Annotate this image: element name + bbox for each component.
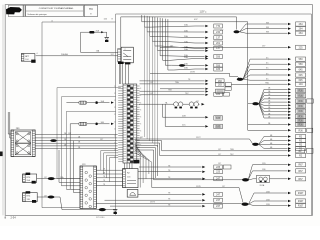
wire y73.3 jog feed to splice S2 xyxy=(150,72,240,79)
svg-text:8: 8 xyxy=(140,152,141,154)
wire loop to fuse F1 and ground xyxy=(81,29,118,52)
splice S2 xyxy=(237,78,244,81)
wire y203.4 switch to splice S6 xyxy=(96,202,241,204)
zone box left outline xyxy=(42,22,116,208)
rotary contact circle pair L xyxy=(174,102,183,109)
bottom mid column rows with arrows and boxes xyxy=(105,165,223,208)
svg-text:9M: 9M xyxy=(266,27,269,29)
relay K1 pin wires down to ECU xyxy=(120,64,129,84)
wire row 83.9 ECU to mid terminal with extra box xyxy=(140,81,232,86)
zone box right outline xyxy=(116,14,312,215)
splice S3 xyxy=(252,102,259,105)
svg-text:21: 21 xyxy=(114,128,116,130)
module B4 (buzzer) xyxy=(127,190,138,198)
svg-text:8: 8 xyxy=(140,159,141,161)
wire row 91.2 ECU to mid terminal double arrow xyxy=(140,87,232,93)
rotary contact circle pair R xyxy=(189,102,198,109)
ECU bottom exit wires xyxy=(125,163,133,169)
svg-text:78C: 78C xyxy=(230,154,234,156)
wire row 47.3 xyxy=(160,45,306,49)
binder hole mark left edge xyxy=(0,152,3,157)
svg-text:21: 21 xyxy=(114,114,116,116)
header sheet number box xyxy=(84,5,97,16)
S4 fan rows to terminal boxes xyxy=(259,134,306,150)
top right fan rows to terminal boxes xyxy=(240,22,306,35)
fuse F2 row y102.6 xyxy=(66,100,113,104)
svg-text:78: 78 xyxy=(103,169,105,171)
header logo black arrow glyph xyxy=(6,7,22,14)
S5 fan wire row 170.9 xyxy=(249,169,306,179)
svg-text:13D: 13D xyxy=(262,163,266,165)
svg-text:2: 2 xyxy=(125,49,126,51)
svg-text:R107: R107 xyxy=(298,206,304,208)
svg-text:8: 8 xyxy=(140,123,141,125)
ECU right diagonal wires to inner verticals xyxy=(135,143,152,188)
footer page number 8 2-34 xyxy=(5,215,17,219)
drop wire to row 126.4 xyxy=(165,104,222,128)
wire C4 to switch with splice xyxy=(37,176,80,180)
connector C5 left bottom xyxy=(23,191,38,203)
wire row 155.5 xyxy=(160,153,306,157)
svg-text:137: 137 xyxy=(218,154,221,156)
wire C1 to relay K1 y55.5 xyxy=(36,53,118,56)
bus bundle vertical continuations below staircase xyxy=(145,27,158,147)
splice S8 bottom xyxy=(99,208,106,211)
wire row 80.9 ECU to mid terminal xyxy=(140,79,225,83)
wire row 94 extra terminal box xyxy=(205,92,229,96)
fuse F1 (black) xyxy=(89,31,94,34)
wires switch to module B3 xyxy=(96,169,122,186)
svg-text:8: 8 xyxy=(140,102,141,104)
bus wire top L2 xyxy=(121,17,237,84)
svg-text:261A: 261A xyxy=(260,184,265,187)
grid reference label 1197 xyxy=(200,11,207,14)
ground MH above relay xyxy=(105,38,109,42)
splice S5 xyxy=(154,178,249,181)
wire row 84.2 feed to right terminal xyxy=(231,82,305,87)
left row wires to ECU y134-147 xyxy=(35,133,117,149)
svg-text:137C: 137C xyxy=(196,137,201,139)
component box B5 (contact pair) on row 178.8 xyxy=(249,175,306,186)
svg-text:8: 8 xyxy=(140,95,141,97)
svg-text:137: 137 xyxy=(218,46,221,48)
header logo cell xyxy=(8,5,25,16)
svg-text:R107: R107 xyxy=(298,193,304,195)
svg-text:137: 137 xyxy=(150,93,153,95)
svg-text:137: 137 xyxy=(100,139,103,141)
extra terminal box row 101 xyxy=(307,99,314,103)
svg-text:R36: R36 xyxy=(298,130,303,132)
drop wire to row 117 xyxy=(163,104,223,120)
svg-text:20A BA: 20A BA xyxy=(61,53,68,56)
S2 fan rows to terminal boxes xyxy=(243,57,306,82)
zone outline corner y96.75 xyxy=(61,97,115,186)
splice S4 xyxy=(252,143,259,146)
wire row 130.3 with extra box xyxy=(248,125,313,133)
svg-text:137: 137 xyxy=(111,54,114,56)
connector C4 left xyxy=(23,173,37,184)
long wire y187.5 to splice S6 xyxy=(152,170,243,203)
S3 fan rows to terminal boxes xyxy=(259,88,306,123)
wire C5 to splice S7 and ground xyxy=(37,196,111,210)
S5 fan wire row 164.7 xyxy=(249,163,306,179)
ECU central connector body xyxy=(123,84,137,163)
relay K1 top center xyxy=(118,47,134,64)
svg-text:2-34: 2-34 xyxy=(11,215,17,219)
wire row 94.8 ECU to mid terminal xyxy=(140,93,205,95)
ignition / steering column switch xyxy=(80,164,96,208)
svg-text:R107: R107 xyxy=(298,201,304,203)
S6 fan rows to terminal boxes xyxy=(249,191,306,208)
svg-text:8: 8 xyxy=(140,109,141,111)
svg-text:78: 78 xyxy=(103,172,105,174)
svg-text:137: 137 xyxy=(44,195,47,197)
svg-text:1197: 1197 xyxy=(200,11,206,14)
ECU left pin stubs xyxy=(114,86,123,161)
extra box next to row 167 xyxy=(223,165,231,169)
splice on row 65.4 xyxy=(179,64,185,67)
ECU bottom splice cluster xyxy=(134,160,140,164)
svg-text:137: 137 xyxy=(44,177,47,179)
ground MB bottom xyxy=(112,210,118,214)
zone outline corner y111.4 xyxy=(66,111,115,189)
long wire y139 from ECU to splice S4 xyxy=(135,137,253,144)
svg-text:137: 137 xyxy=(218,149,221,151)
svg-text:137: 137 xyxy=(68,133,71,135)
svg-text:21: 21 xyxy=(114,107,116,109)
mid column wire rows with arrows and connector boxes xyxy=(145,16,223,72)
ECU right pin drop wires nested corners xyxy=(135,141,162,180)
svg-text:137: 137 xyxy=(196,101,199,103)
wire row 104 through rotary contacts xyxy=(139,101,205,105)
svg-text:9M: 9M xyxy=(266,32,269,34)
svg-text:Schema de principe: Schema de principe xyxy=(27,13,47,16)
svg-text:8: 8 xyxy=(140,88,141,90)
ECU right pin stubs xyxy=(137,86,142,161)
zone outline corner y87.6 xyxy=(57,88,121,179)
svg-text:137: 137 xyxy=(218,169,221,171)
svg-text:21: 21 xyxy=(114,135,116,137)
svg-text:137: 137 xyxy=(170,46,173,48)
svg-text:8: 8 xyxy=(140,145,141,147)
svg-text:21: 21 xyxy=(114,100,116,102)
svg-text:TN: TN xyxy=(89,7,93,11)
svg-text:10: 10 xyxy=(51,20,53,22)
wires B3/B4 right exits xyxy=(138,172,139,195)
connector C1 (battery feed) xyxy=(21,53,37,63)
svg-text:R67: R67 xyxy=(298,165,303,167)
svg-text:21: 21 xyxy=(114,86,116,88)
ECU bottom-left drop wires to switch rows xyxy=(101,151,118,182)
module B3 center bottom xyxy=(123,169,138,188)
left bus turn-in wires to switch pins xyxy=(59,182,80,192)
splice on relay row y140.6 xyxy=(50,139,56,142)
svg-text:8: 8 xyxy=(140,130,141,132)
svg-text:CONTACTEUR TOURNANT AIRBAG: CONTACTEUR TOURNANT AIRBAG xyxy=(39,7,74,10)
vertical feed wire to splice S3 xyxy=(248,22,253,104)
svg-text:137: 137 xyxy=(150,82,153,84)
splice SA top right xyxy=(220,30,240,34)
wire code labels mid-span xyxy=(44,46,225,198)
svg-text:78: 78 xyxy=(103,180,105,182)
svg-text:8: 8 xyxy=(140,116,141,118)
splice S6 xyxy=(242,203,249,206)
wire row 150.8 with double terminal box xyxy=(162,148,313,153)
svg-text:▸: ▸ xyxy=(206,11,207,14)
left vertical bus wires xyxy=(59,124,74,193)
svg-text:137: 137 xyxy=(222,186,225,188)
header title box xyxy=(26,5,84,16)
svg-text:NT 8180: NT 8180 xyxy=(96,217,105,219)
svg-text:78: 78 xyxy=(103,184,105,186)
svg-text:78: 78 xyxy=(103,176,105,178)
svg-text:4: 4 xyxy=(36,53,37,55)
wire row 124.5 xyxy=(248,104,306,127)
svg-text:9M: 9M xyxy=(266,22,269,24)
UCH left feed wires from above xyxy=(8,112,11,138)
bus wire staircase corner y21.8 feeding splice S3 xyxy=(142,15,248,22)
svg-text:137B: 137B xyxy=(190,72,195,74)
UCH relay block 299 xyxy=(11,128,35,156)
svg-text:78C: 78C xyxy=(185,93,189,95)
svg-text:137: 137 xyxy=(218,163,221,165)
svg-text:21: 21 xyxy=(114,93,116,95)
fuse F3 row y123.8 xyxy=(70,122,114,125)
grid reference label 115 xyxy=(104,19,114,21)
svg-text:21: 21 xyxy=(114,121,116,123)
svg-text:R67: R67 xyxy=(298,179,303,181)
svg-text:R67: R67 xyxy=(298,171,303,173)
svg-text:137E: 137E xyxy=(196,186,201,188)
svg-text:20C: 20C xyxy=(182,125,186,127)
svg-text:8: 8 xyxy=(140,138,141,140)
svg-text:137G: 137G xyxy=(150,202,155,204)
